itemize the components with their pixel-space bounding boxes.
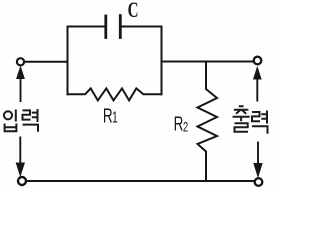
wire: top rail right segment from capacitor <box>122 26 162 28</box>
출 : chieut <box>234 106 249 114</box>
svg-text:2: 2 <box>183 118 188 135</box>
wire: output rail <box>162 61 255 63</box>
label C <box>128 0 139 23</box>
svg-text:R: R <box>174 112 184 136</box>
wire: right vertical of parallel branch <box>161 27 163 95</box>
력 : giyeok final <box>23 125 39 132</box>
label R2 <box>174 112 189 136</box>
capacitor C <box>106 16 121 38</box>
polarity arrow down (input side) <box>16 137 24 176</box>
입 : ieung <box>4 111 12 119</box>
label R1 <box>103 104 118 128</box>
polarity arrow up (output side) <box>254 68 261 102</box>
svg-text:R: R <box>103 104 113 128</box>
input terminal (top-left) <box>17 58 24 65</box>
svg-text:1: 1 <box>112 108 118 126</box>
력 : yeo vowel <box>261 111 267 124</box>
력 : rieul initial <box>23 110 31 119</box>
input terminal (bottom-left) <box>18 177 26 185</box>
svg-text:C: C <box>128 0 139 23</box>
polarity arrow up (input side) <box>17 67 24 102</box>
wire: top rail left segment to capacitor <box>68 26 105 28</box>
output terminal (bottom-right) <box>255 178 263 186</box>
wire: bottom rail <box>27 180 255 182</box>
력 : yeo vowel <box>32 109 38 122</box>
력 : giyeok final <box>252 126 268 134</box>
polarity arrow down (output side) <box>254 142 262 177</box>
label 출력 (output), hand-drawn hangul <box>233 106 268 134</box>
label 입력 (input), hand-drawn hangul <box>4 109 38 132</box>
입 : bieup final <box>5 124 17 132</box>
력 : rieul initial <box>252 112 260 121</box>
출 : u vowel <box>233 117 250 122</box>
wire: left vertical of parallel branch <box>67 27 69 95</box>
wire: input top rail <box>25 61 68 63</box>
resistor R2 <box>198 62 218 182</box>
resistor R1 <box>68 88 162 100</box>
출 : rieul final <box>235 123 249 132</box>
입 : i vowel <box>15 110 17 122</box>
output terminal (top-right) <box>254 57 262 65</box>
